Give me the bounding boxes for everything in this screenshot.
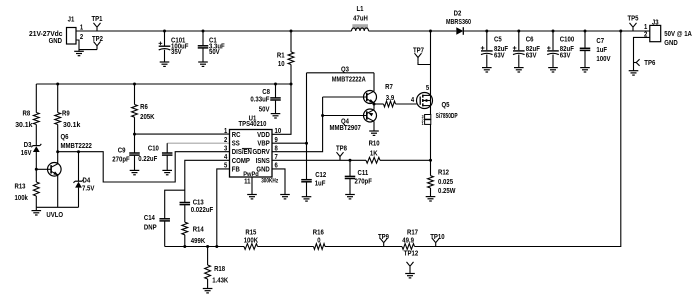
ground [271, 114, 281, 118]
svg-text:0.22uF: 0.22uF [138, 156, 158, 163]
wire RC to pin1 [135, 133, 230, 135]
svg-text:50V @ 1A: 50V @ 1A [664, 31, 692, 38]
wire VIN rail [76, 30, 352, 32]
svg-text:C5: C5 [494, 37, 502, 44]
svg-text:C10: C10 [148, 145, 159, 152]
svg-text:TPS40210: TPS40210 [239, 121, 267, 128]
svg-text:C13: C13 [193, 199, 204, 206]
junction [56, 83, 59, 86]
svg-text:R8: R8 [23, 111, 31, 118]
wire driver emitters [373, 103, 375, 110]
svg-text:R7: R7 [385, 84, 393, 91]
svg-text:D2: D2 [454, 11, 462, 18]
svg-text:C9: C9 [118, 147, 126, 154]
ground [130, 170, 140, 174]
transistor Q3 MMBT2222A [332, 66, 377, 103]
resistor R8 [15, 84, 39, 129]
svg-text:MMBT2907: MMBT2907 [330, 125, 361, 132]
test point TP5 [628, 15, 639, 31]
resistor R17 [402, 229, 418, 249]
junction [183, 245, 186, 248]
wire VDD to pin10 [272, 84, 291, 134]
capacitor C11 [345, 160, 373, 194]
test point TP7 [413, 47, 431, 64]
svg-text:2: 2 [224, 137, 227, 144]
svg-text:R13: R13 [15, 184, 26, 191]
svg-text:10: 10 [278, 61, 285, 68]
ground [482, 68, 492, 72]
inductor L1 [352, 6, 369, 31]
svg-text:1uF: 1uF [315, 181, 326, 188]
wire GDRV net [272, 97, 367, 152]
svg-text:R12: R12 [438, 169, 449, 176]
wire VBP net [272, 73, 374, 180]
ground [302, 197, 312, 201]
ground [345, 195, 355, 199]
junction [305, 142, 308, 145]
wire VOUT rail [464, 30, 650, 32]
junction [349, 159, 352, 162]
svg-text:R18: R18 [214, 266, 225, 273]
svg-text:L1: L1 [357, 6, 364, 13]
ground [580, 68, 590, 72]
junction [133, 133, 136, 136]
wire switch-node rail [369, 30, 457, 32]
capacitor C9 [112, 134, 139, 170]
ground [280, 195, 290, 199]
ground [247, 195, 257, 199]
ground [162, 170, 172, 174]
resistor R12 [428, 169, 456, 196]
svg-text:R9: R9 [62, 111, 70, 118]
wire Q5 gate lead [411, 97, 414, 104]
wire J1 pin2 to ground [76, 40, 79, 51]
ground [426, 197, 436, 201]
resistor R7 [374, 84, 417, 107]
capacitor C10 [138, 143, 172, 170]
junction [290, 30, 293, 33]
svg-text:TP6: TP6 [644, 60, 655, 67]
resistor R16 [313, 229, 325, 249]
ground [405, 274, 415, 278]
ground [514, 68, 524, 72]
svg-text:R16: R16 [313, 229, 324, 236]
svg-text:R10: R10 [369, 141, 380, 148]
connector J1 [29, 16, 83, 45]
svg-text:1: 1 [644, 24, 647, 31]
wire SS net (gray) [167, 142, 229, 144]
junction [202, 30, 205, 33]
wire UVLO ground bus [36, 207, 78, 210]
svg-text:R15: R15 [245, 229, 256, 236]
svg-text:R14: R14 [193, 227, 204, 234]
resistor R18 [205, 247, 229, 289]
svg-text:MMBT2222: MMBT2222 [61, 143, 92, 150]
diode D2 [446, 11, 471, 35]
svg-text:35V: 35V [171, 49, 182, 56]
wire Q5 source [430, 124, 432, 175]
junction [206, 245, 209, 248]
svg-text:Q3: Q3 [341, 66, 349, 73]
svg-text:DNP: DNP [144, 225, 157, 232]
ground [369, 131, 379, 135]
junction [552, 30, 555, 33]
svg-text:0.25W: 0.25W [438, 188, 456, 195]
svg-text:R17: R17 [407, 229, 418, 236]
resistor R15 [244, 229, 258, 249]
test point TP9 [378, 234, 389, 247]
junction [274, 83, 277, 86]
ground [160, 62, 170, 66]
svg-text:3: 3 [224, 146, 227, 153]
svg-text:63V: 63V [560, 52, 571, 59]
capacitor C7 [580, 31, 611, 67]
wire Q3 collector [373, 73, 375, 91]
svg-text:30.1k: 30.1k [15, 122, 32, 129]
test point TP1 [92, 16, 103, 31]
svg-text:C7: C7 [596, 38, 604, 45]
svg-text:C12: C12 [315, 172, 326, 179]
svg-text:0.025: 0.025 [438, 179, 453, 186]
capacitor C8 [250, 84, 280, 114]
svg-text:MMBT2222A: MMBT2222A [332, 76, 366, 83]
wire C14 branch [165, 190, 185, 218]
zener diode D4 [74, 152, 95, 208]
resistor R13 [15, 181, 40, 207]
wire VDD rail [36, 83, 291, 85]
svg-text:10: 10 [275, 128, 282, 135]
svg-text:RC: RC [232, 132, 241, 139]
test point TP2 [92, 36, 103, 49]
svg-text:0.022uF: 0.022uF [191, 207, 214, 214]
zener diode D3 [21, 125, 42, 182]
svg-text:FB: FB [232, 166, 240, 173]
svg-text:C8: C8 [262, 89, 270, 96]
svg-text:100k: 100k [15, 195, 28, 202]
svg-text:0: 0 [317, 238, 320, 245]
junction [619, 30, 622, 33]
svg-text:TP8: TP8 [336, 146, 347, 153]
svg-text:3.9: 3.9 [386, 95, 394, 102]
capacitor C14 [144, 215, 170, 247]
junction [56, 150, 59, 153]
svg-text:MBRS360: MBRS360 [446, 19, 471, 26]
wire ISNS net [272, 159, 431, 161]
svg-text:49.9: 49.9 [402, 238, 414, 245]
junction [163, 30, 166, 33]
svg-text:50V: 50V [259, 106, 270, 113]
capacitor C6 [513, 31, 541, 68]
resistor R1 [277, 31, 294, 84]
svg-text:GDRV: GDRV [253, 149, 271, 156]
wire FB divider rail [165, 31, 621, 247]
test point TP6 [634, 59, 656, 67]
wire Q6 collector [57, 125, 59, 164]
svg-text:11: 11 [244, 179, 250, 186]
wire Q6 base [36, 168, 51, 170]
ground [203, 289, 213, 293]
svg-text:TP9: TP9 [378, 234, 389, 241]
wire pin6 GND [272, 169, 285, 195]
resistor R10 [366, 141, 380, 164]
svg-text:50V: 50V [209, 49, 220, 56]
mosfet Q5 Si7850DP [417, 93, 458, 120]
pins Q5 source stack [422, 106, 431, 126]
svg-text:2: 2 [80, 34, 83, 41]
junction [133, 83, 136, 86]
svg-text:R6: R6 [140, 104, 148, 111]
svg-text:GND: GND [664, 40, 677, 47]
transistor Q6 MMBT2222 [48, 134, 92, 176]
connector J3 [644, 19, 692, 47]
capacitor C1 [198, 31, 226, 62]
transistor Q4 MMBT2907 [330, 109, 377, 132]
junction [215, 245, 218, 248]
capacitor C13 [180, 199, 214, 222]
svg-text:270pF: 270pF [112, 157, 130, 164]
wire Q6 emitter to ground bus [57, 175, 59, 207]
svg-text:300KHz: 300KHz [261, 177, 278, 184]
svg-text:SS: SS [232, 141, 240, 148]
ground [629, 71, 639, 75]
svg-text:Q6: Q6 [61, 134, 69, 141]
svg-text:Si7850DP: Si7850DP [436, 113, 458, 120]
svg-text:TP1: TP1 [92, 16, 103, 23]
test point TP8 [336, 146, 347, 161]
resistor R6 [132, 84, 155, 134]
svg-text:DIS/EN: DIS/EN [232, 149, 252, 156]
wire Q4 collector to ground [373, 121, 375, 131]
test point TP10 [430, 234, 444, 247]
svg-text:100K: 100K [244, 238, 258, 245]
ground [74, 51, 84, 55]
svg-text:0.33uF: 0.33uF [250, 97, 270, 104]
junction [517, 30, 520, 33]
junction [429, 30, 432, 33]
junction [290, 83, 293, 86]
ground UVLO [32, 211, 64, 219]
svg-text:UVLO: UVLO [46, 212, 63, 219]
svg-text:ISNS: ISNS [256, 158, 270, 165]
svg-text:1: 1 [224, 128, 227, 135]
capacitor C101 [159, 31, 189, 62]
wire COMP net [185, 160, 230, 202]
svg-text:D4: D4 [83, 178, 91, 185]
svg-text:47uH: 47uH [353, 16, 368, 23]
svg-text:4: 4 [411, 97, 414, 104]
ground [198, 62, 208, 66]
wire Q5 drain [426, 31, 431, 95]
svg-text:VDD: VDD [257, 132, 270, 139]
svg-text:1K: 1K [370, 150, 378, 157]
svg-text:Q5: Q5 [442, 102, 450, 109]
svg-text:J3: J3 [652, 19, 659, 26]
wire J3 pin2 to ground [634, 37, 650, 70]
junction [485, 30, 488, 33]
svg-text:16V: 16V [21, 150, 32, 157]
svg-text:1.43K: 1.43K [212, 278, 228, 285]
IC U1 TPS40210 [224, 116, 281, 186]
svg-text:R1: R1 [277, 53, 285, 60]
svg-text:C6: C6 [526, 37, 534, 44]
svg-text:C100: C100 [560, 37, 574, 44]
svg-text:J1: J1 [68, 16, 75, 23]
svg-text:PwPd: PwPd [243, 171, 259, 178]
junction [321, 114, 324, 117]
wire DIS/EN net [58, 152, 230, 182]
svg-text:30.1k: 30.1k [63, 122, 80, 129]
junction [35, 168, 38, 171]
svg-text:COMP: COMP [232, 158, 250, 165]
ground [548, 68, 558, 72]
junction [77, 150, 80, 153]
svg-text:63V: 63V [526, 52, 537, 59]
wire pin11 pad to ground [251, 177, 253, 195]
svg-text:205K: 205K [140, 114, 154, 121]
svg-text:VBP: VBP [257, 141, 270, 148]
svg-text:1uF: 1uF [596, 47, 607, 54]
svg-text:C14: C14 [144, 215, 155, 222]
junction [429, 159, 432, 162]
svg-text:D3: D3 [24, 142, 32, 149]
capacitor C5 [481, 31, 509, 68]
svg-text:TP12: TP12 [404, 251, 418, 258]
wire TP2 to ground net [79, 49, 97, 51]
resistor R9 [55, 84, 81, 129]
svg-text:499K: 499K [191, 238, 205, 245]
svg-text:TP5: TP5 [628, 15, 639, 22]
junction [373, 103, 376, 106]
capacitor C12 [301, 172, 326, 197]
svg-text:100V: 100V [596, 56, 610, 63]
junction [584, 30, 587, 33]
svg-text:270pF: 270pF [355, 179, 373, 186]
svg-text:C11: C11 [358, 170, 369, 177]
svg-text:5: 5 [426, 85, 429, 92]
svg-text:7.5V: 7.5V [82, 186, 95, 193]
wire FB net [217, 169, 230, 247]
svg-text:GND: GND [49, 38, 62, 45]
svg-text:63V: 63V [494, 52, 505, 59]
capacitor C100 [547, 31, 575, 68]
resistor R14 [182, 222, 205, 246]
test point TP12 [404, 251, 418, 274]
